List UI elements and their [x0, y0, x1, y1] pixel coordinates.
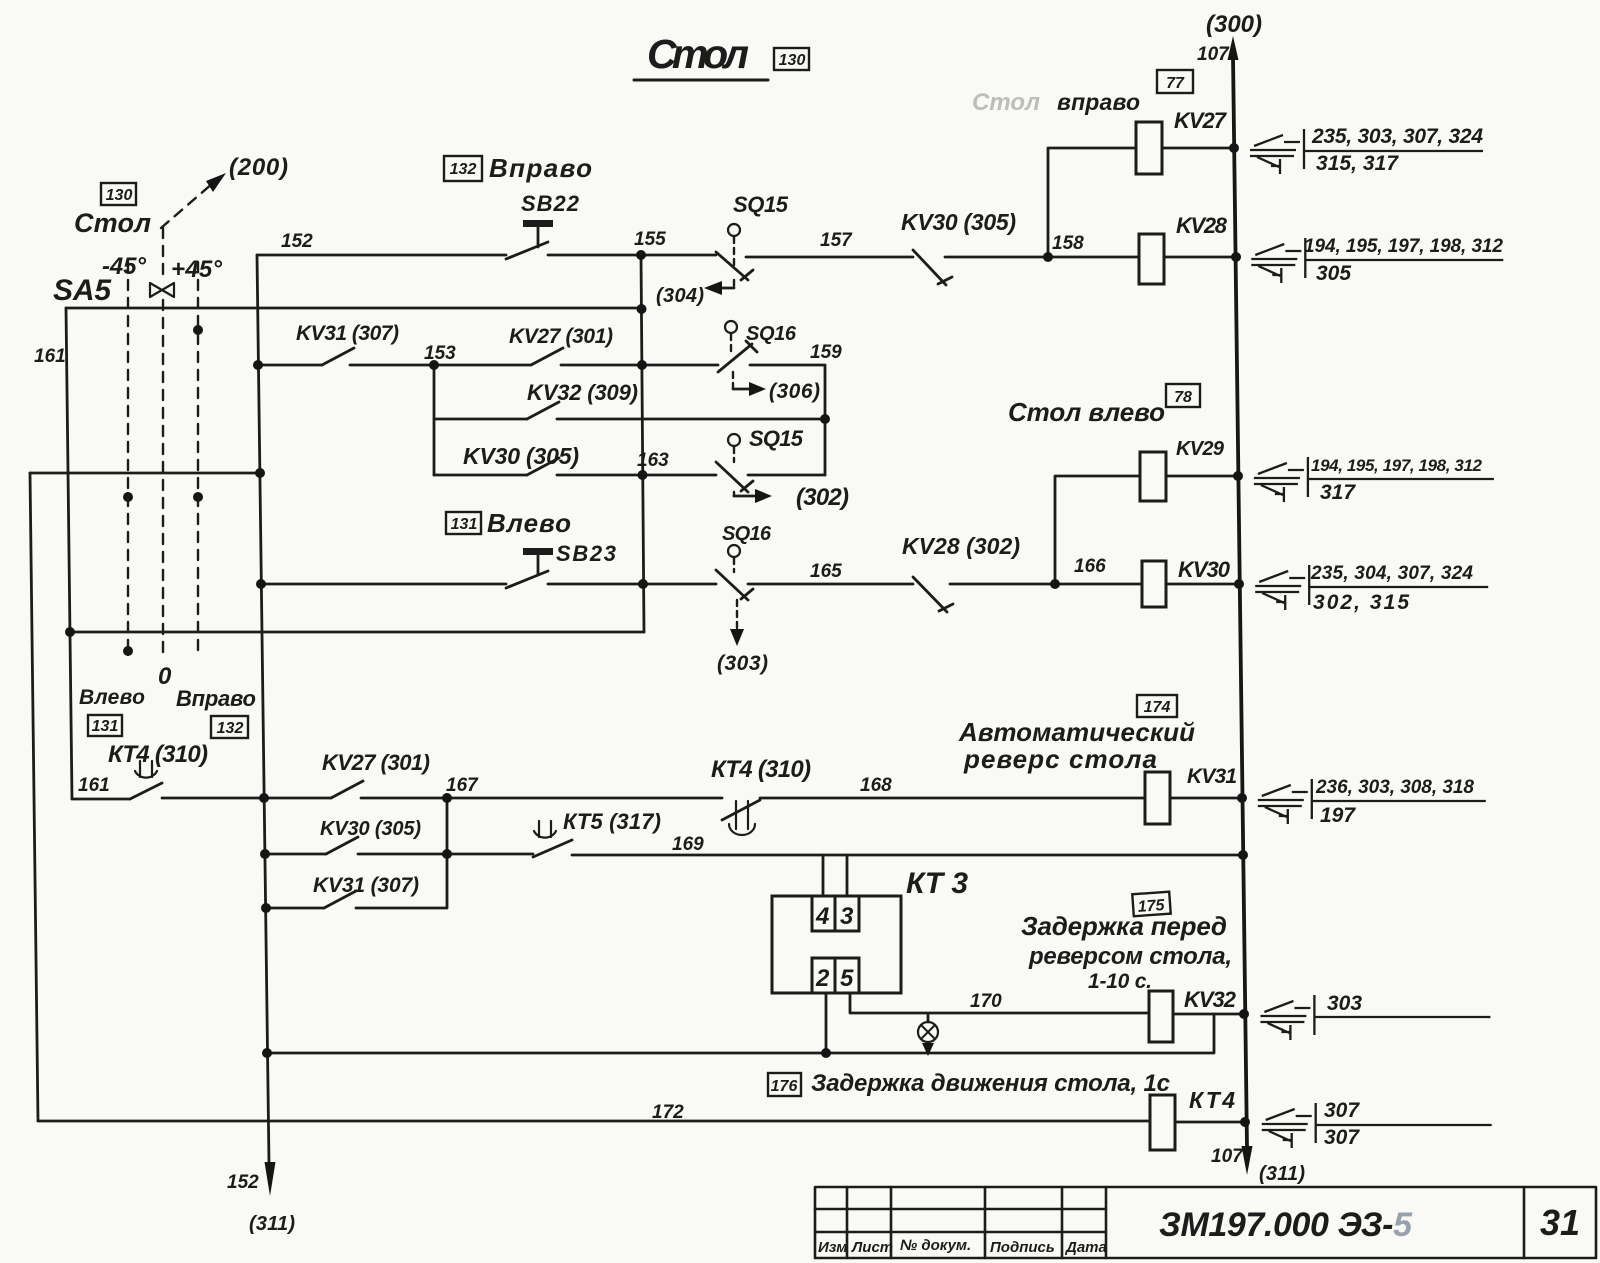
svg-text:(303): (303) — [717, 652, 768, 675]
svg-text:Изм: Изм — [818, 1239, 847, 1256]
svg-text:130: 130 — [779, 52, 806, 69]
svg-text:(302): (302) — [796, 484, 849, 511]
svg-text:152: 152 — [227, 1172, 259, 1193]
svg-text:161: 161 — [78, 775, 110, 796]
svg-text:SB22: SB22 — [521, 191, 580, 216]
svg-text:KV31: KV31 — [1187, 765, 1237, 788]
svg-text:SQ15: SQ15 — [733, 192, 789, 217]
svg-text:SQ15: SQ15 — [749, 426, 804, 451]
svg-text:166: 166 — [1074, 556, 1106, 577]
svg-text:131: 131 — [451, 516, 478, 533]
svg-text:2: 2 — [815, 965, 830, 992]
svg-text:3: 3 — [840, 903, 854, 930]
svg-text:132: 132 — [450, 161, 477, 178]
svg-text:(200): (200) — [229, 154, 288, 181]
svg-text:307: 307 — [1324, 1126, 1360, 1149]
svg-text:KV30 (305): KV30 (305) — [901, 209, 1016, 235]
svg-text:KV30 (305): KV30 (305) — [463, 443, 579, 469]
svg-text:KV32: KV32 — [1184, 987, 1237, 1012]
svg-text:Стол: Стол — [972, 89, 1040, 116]
svg-text:317: 317 — [1320, 481, 1356, 504]
svg-text:KV30 (305): KV30 (305) — [320, 818, 421, 840]
svg-text:194, 195, 197, 198, 312: 194, 195, 197, 198, 312 — [1304, 236, 1503, 257]
svg-text:5: 5 — [840, 965, 854, 992]
svg-text:303: 303 — [1327, 992, 1362, 1015]
svg-text:KV28 (302): KV28 (302) — [902, 533, 1020, 559]
svg-text:77: 77 — [1166, 75, 1185, 92]
svg-text:1-10 с.: 1-10 с. — [1088, 970, 1152, 993]
svg-text:107: 107 — [1197, 44, 1230, 65]
svg-text:KV27 (301): KV27 (301) — [322, 750, 430, 775]
svg-text:SQ16: SQ16 — [746, 323, 797, 345]
svg-text:KV27: KV27 — [1174, 108, 1228, 133]
svg-text:(311): (311) — [1259, 1163, 1305, 1185]
svg-text:169: 169 — [672, 834, 704, 855]
svg-text:0: 0 — [158, 663, 172, 690]
svg-text:31: 31 — [1540, 1202, 1580, 1243]
svg-text:KV29: KV29 — [1176, 438, 1225, 460]
svg-text:157: 157 — [820, 230, 853, 251]
svg-text:Лист: Лист — [851, 1239, 893, 1256]
svg-text:КТ 3: КТ 3 — [906, 867, 968, 900]
svg-text:№ докум.: № докум. — [900, 1237, 971, 1254]
svg-text:КТ4 (310): КТ4 (310) — [108, 741, 208, 768]
svg-text:Дата: Дата — [1064, 1239, 1107, 1256]
svg-text:KV28: KV28 — [1176, 213, 1228, 238]
svg-text:KV27 (301): KV27 (301) — [509, 325, 613, 348]
svg-text:Автоматический: Автоматический — [958, 717, 1195, 747]
svg-text:167: 167 — [446, 775, 479, 796]
svg-text:(311): (311) — [249, 1213, 295, 1235]
svg-text:Вправо: Вправо — [176, 686, 256, 711]
svg-text:Стол влево: Стол влево — [1008, 397, 1165, 427]
svg-text:235, 304, 307, 324: 235, 304, 307, 324 — [1310, 563, 1473, 584]
svg-text:315, 317: 315, 317 — [1316, 152, 1399, 175]
svg-text:130: 130 — [106, 187, 133, 204]
svg-text:Влево: Влево — [79, 686, 145, 709]
svg-text:132: 132 — [217, 720, 244, 737]
svg-text:КТ4 (310): КТ4 (310) — [711, 756, 811, 783]
svg-text:305: 305 — [1316, 262, 1351, 285]
svg-text:302, 315: 302, 315 — [1313, 591, 1409, 614]
svg-text:131: 131 — [92, 718, 119, 735]
svg-text:172: 172 — [652, 1102, 684, 1123]
svg-text:ЗМ197.000 ЭЗ-5: ЗМ197.000 ЭЗ-5 — [1159, 1206, 1413, 1244]
svg-text:194, 195, 197, 198, 312: 194, 195, 197, 198, 312 — [1311, 456, 1483, 475]
svg-text:155: 155 — [634, 229, 666, 250]
svg-text:153: 153 — [424, 343, 456, 364]
svg-text:236, 303, 308, 318: 236, 303, 308, 318 — [1315, 777, 1474, 798]
svg-text:158: 158 — [1052, 233, 1084, 254]
svg-text:KV30: KV30 — [1178, 557, 1231, 582]
svg-text:KV31 (307): KV31 (307) — [296, 322, 399, 345]
svg-text:(306): (306) — [769, 380, 820, 403]
svg-text:Вправо: Вправо — [489, 153, 592, 183]
svg-text:152: 152 — [281, 231, 313, 252]
svg-text:307: 307 — [1324, 1099, 1360, 1122]
svg-text:161: 161 — [34, 346, 66, 367]
svg-text:(304): (304) — [656, 285, 704, 307]
svg-text:235, 303, 307, 324: 235, 303, 307, 324 — [1311, 125, 1483, 148]
svg-text:вправо: вправо — [1057, 89, 1140, 115]
svg-text:163: 163 — [637, 450, 669, 471]
svg-text:SQ16: SQ16 — [722, 523, 772, 545]
svg-text:78: 78 — [1174, 389, 1192, 406]
svg-text:+45°: +45° — [171, 256, 222, 283]
svg-text:Задержка перед: Задержка перед — [1021, 911, 1227, 941]
svg-text:170: 170 — [970, 991, 1002, 1012]
svg-text:4: 4 — [815, 903, 829, 930]
svg-text:Стол: Стол — [74, 208, 151, 238]
svg-text:Подпись: Подпись — [990, 1239, 1055, 1256]
svg-text:КТ4: КТ4 — [1189, 1087, 1235, 1113]
svg-text:KV32 (309): KV32 (309) — [527, 380, 638, 405]
svg-text:(300): (300) — [1206, 11, 1262, 38]
svg-text:-45°: -45° — [102, 253, 146, 280]
svg-text:Задержка движения стола, 1с: Задержка движения стола, 1с — [811, 1070, 1170, 1097]
svg-text:165: 165 — [810, 561, 842, 582]
svg-text:Стол: Стол — [647, 31, 749, 77]
svg-text:реверсом стола,: реверсом стола, — [1028, 943, 1232, 970]
svg-text:107: 107 — [1211, 1146, 1244, 1167]
svg-text:реверс стола: реверс стола — [963, 744, 1157, 774]
svg-text:KV31 (307): KV31 (307) — [313, 874, 419, 897]
svg-text:168: 168 — [860, 775, 892, 796]
svg-text:176: 176 — [771, 1078, 798, 1095]
svg-text:Влево: Влево — [487, 508, 571, 538]
svg-text:КТ5 (317): КТ5 (317) — [563, 809, 661, 834]
svg-text:174: 174 — [1144, 699, 1171, 716]
svg-text:159: 159 — [810, 342, 842, 363]
svg-text:197: 197 — [1320, 804, 1356, 827]
svg-text:SB23: SB23 — [556, 541, 616, 566]
